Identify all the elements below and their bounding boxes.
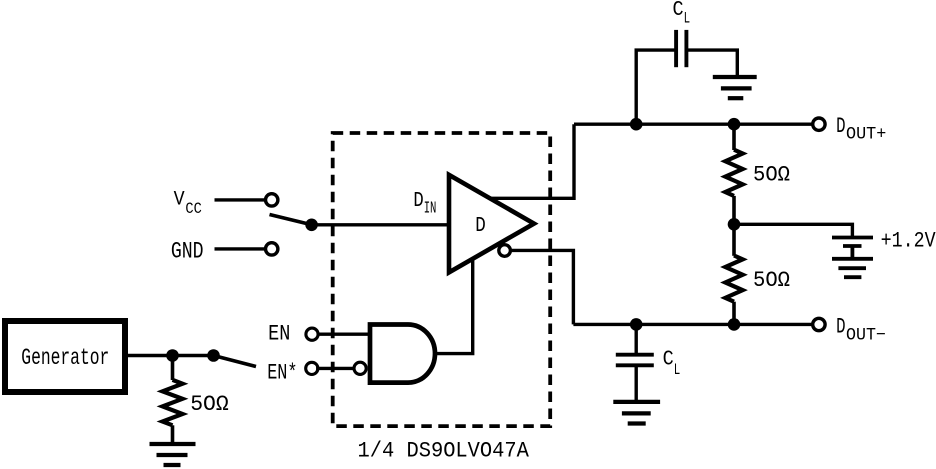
resistor 50 ohm generator termination (163, 380, 183, 425)
svg-text:OUT−: OUT− (846, 325, 886, 345)
wire R2 top lead (732, 224, 736, 256)
wire AND output (434, 259, 473, 354)
wire inverting output (511, 250, 574, 324)
svg-text:D: D (413, 190, 423, 213)
terminal EN (306, 328, 318, 340)
svg-text:5OΩ: 5OΩ (753, 268, 790, 293)
svg-text:L: L (674, 361, 681, 379)
ground generator (150, 444, 196, 465)
wire midpoint to battery (734, 224, 852, 237)
junction node top R (728, 118, 741, 131)
svg-text:D: D (836, 314, 845, 339)
wire EN input (317, 333, 370, 336)
svg-text:5OΩ: 5OΩ (753, 163, 790, 188)
svg-text:OUT+: OUT+ (846, 125, 886, 145)
wire top rail DOUT+ (574, 122, 812, 125)
terminal EN* (306, 362, 318, 374)
wire CL top to ground (686, 50, 737, 77)
wire GND lead (215, 247, 266, 250)
terminal DOUT- (813, 318, 825, 330)
junction node DIN switch (305, 219, 318, 232)
dashed box 1/4 DS90LV047A (333, 133, 551, 426)
wire resistor top lead (171, 356, 175, 381)
svg-text:5OΩ: 5OΩ (190, 392, 229, 417)
wire R2 bottom lead (732, 302, 736, 325)
junction node bottom CL (630, 318, 643, 331)
svg-text:C: C (673, 0, 684, 22)
capacitor CL top (676, 30, 686, 67)
junction node mid R (728, 218, 741, 231)
svg-text:C: C (663, 349, 674, 372)
capacitor CL bottom (616, 355, 654, 366)
svg-text:L: L (684, 9, 691, 27)
wire noninverting output (489, 124, 574, 198)
svg-text:EN: EN (268, 322, 290, 347)
svg-text:Generator: Generator (21, 345, 109, 371)
wire bottom CL lead (635, 324, 638, 354)
inverter bubble EN* (354, 362, 366, 374)
inverting output bubble (499, 245, 511, 257)
wire generator output (125, 354, 214, 357)
terminal GND (266, 243, 278, 255)
driver op-amp U1 triangle (449, 175, 534, 273)
wire CL bottom to ground (635, 365, 638, 402)
AND gate U2 (370, 324, 435, 382)
junction node top CL (630, 118, 643, 131)
junction node gen A (166, 349, 179, 362)
svg-text:D: D (836, 114, 845, 139)
junction node bottom R (728, 318, 741, 331)
wire R1 top lead (732, 124, 736, 150)
wire resistor bottom lead (171, 425, 175, 444)
wire DIN (312, 223, 449, 226)
generator box (5, 321, 125, 392)
svg-text:IN: IN (424, 199, 437, 218)
resistor R2 50 ohm (725, 256, 742, 302)
terminal DOUT+ (813, 118, 825, 130)
switch arm to EN* (214, 356, 257, 367)
svg-text:1/4 DS9OLVO47A: 1/4 DS9OLVO47A (358, 439, 530, 464)
ground top CL (713, 77, 757, 98)
svg-text:D: D (475, 214, 486, 238)
ground bottom CL (613, 402, 660, 424)
battery +1.2V (832, 238, 873, 259)
svg-text:+1.2V: +1.2V (881, 229, 936, 254)
wire top CL branch (636, 50, 676, 124)
wire R1 bottom lead (732, 196, 736, 224)
switch arm VCC to DIN (270, 215, 312, 225)
ground battery (832, 259, 873, 277)
resistor R1 50 ohm (725, 150, 742, 196)
terminal VCC (266, 194, 278, 206)
wire VCC lead (215, 198, 266, 201)
svg-text:EN*: EN* (267, 360, 297, 385)
svg-text:GND: GND (171, 239, 204, 265)
svg-text:V: V (174, 189, 185, 212)
wire EN* input (316, 367, 355, 370)
junction node gen B (207, 349, 220, 362)
svg-text:CC: CC (185, 200, 201, 218)
wire bottom rail DOUT- (573, 323, 812, 326)
